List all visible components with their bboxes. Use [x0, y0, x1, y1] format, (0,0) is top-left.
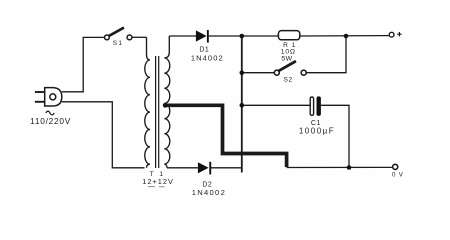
diode D2 — [198, 162, 211, 175]
label + output — [397, 32, 401, 36]
0V output terminal — [393, 164, 398, 169]
transformer T1 secondary winding — [164, 36, 170, 168]
junction dot centre tap — [163, 103, 168, 108]
wire secondary top to D1 — [169, 35, 196, 37]
mains plug P1 body — [45, 88, 62, 106]
wire node A to C1 — [242, 104, 310, 106]
wire secondary bottom to D2 — [167, 167, 198, 169]
wire S1 to primary top — [132, 36, 147, 38]
capacitor C1 plate - — [317, 96, 321, 116]
node A vertical (rectifier output) — [241, 36, 243, 173]
switch S2 lever — [279, 61, 296, 71]
diode D1 — [196, 30, 209, 43]
junction dot 0V rail — [347, 165, 352, 170]
switch S1 contact left — [105, 35, 110, 40]
junction dot R1 right — [344, 34, 349, 39]
svg-text:12+12V: 12+12V — [142, 177, 174, 186]
resistor R1 — [278, 31, 299, 40]
wire S2 to rail — [306, 36, 346, 73]
wire C1 to 0V rail — [321, 105, 349, 167]
mains plug P1 prong top — [35, 91, 45, 93]
+ output terminal — [389, 32, 394, 37]
mains plug P1 prong bottom — [35, 101, 45, 103]
svg-text:10Ω: 10Ω — [281, 48, 296, 55]
wire node A to S2 — [242, 72, 274, 74]
svg-text:110/220V: 110/220V — [30, 116, 71, 126]
switch S2 contact left — [274, 70, 279, 75]
svg-text:5W: 5W — [281, 56, 292, 63]
svg-text:S1: S1 — [113, 40, 124, 47]
transformer T1 primary winding — [145, 37, 150, 168]
wire R1 to + terminal — [300, 35, 389, 37]
wire plug top to S1 — [62, 37, 105, 91]
junction dot C1 branch — [240, 103, 245, 108]
thick centre-tap return wire — [165, 105, 287, 167]
transformer T1 core — [155, 56, 157, 168]
switch S1 contact right — [127, 35, 132, 40]
capacitor C1 plate + — [310, 97, 313, 115]
mains plug P1 hole — [50, 94, 56, 100]
junction dot node A top — [240, 34, 245, 39]
wire D2 cathode to node A — [211, 167, 241, 169]
AC symbol — [46, 111, 54, 115]
svg-text:S2: S2 — [283, 76, 292, 83]
svg-text:1N4002: 1N4002 — [192, 188, 226, 197]
wire plug bottom to primary bottom — [62, 102, 145, 168]
switch S1 lever — [109, 28, 124, 36]
svg-text:1000µF: 1000µF — [299, 127, 335, 136]
0V bottom rail — [287, 166, 392, 168]
svg-text:1N4002: 1N4002 — [191, 54, 224, 63]
faint scan marks — [148, 186, 165, 188]
junction dot S2 branch — [240, 70, 245, 75]
wire D1 cathode to node A — [209, 35, 279, 37]
switch S2 contact right — [301, 70, 306, 75]
svg-text:D1: D1 — [199, 47, 209, 54]
svg-text:0 V: 0 V — [392, 171, 404, 178]
